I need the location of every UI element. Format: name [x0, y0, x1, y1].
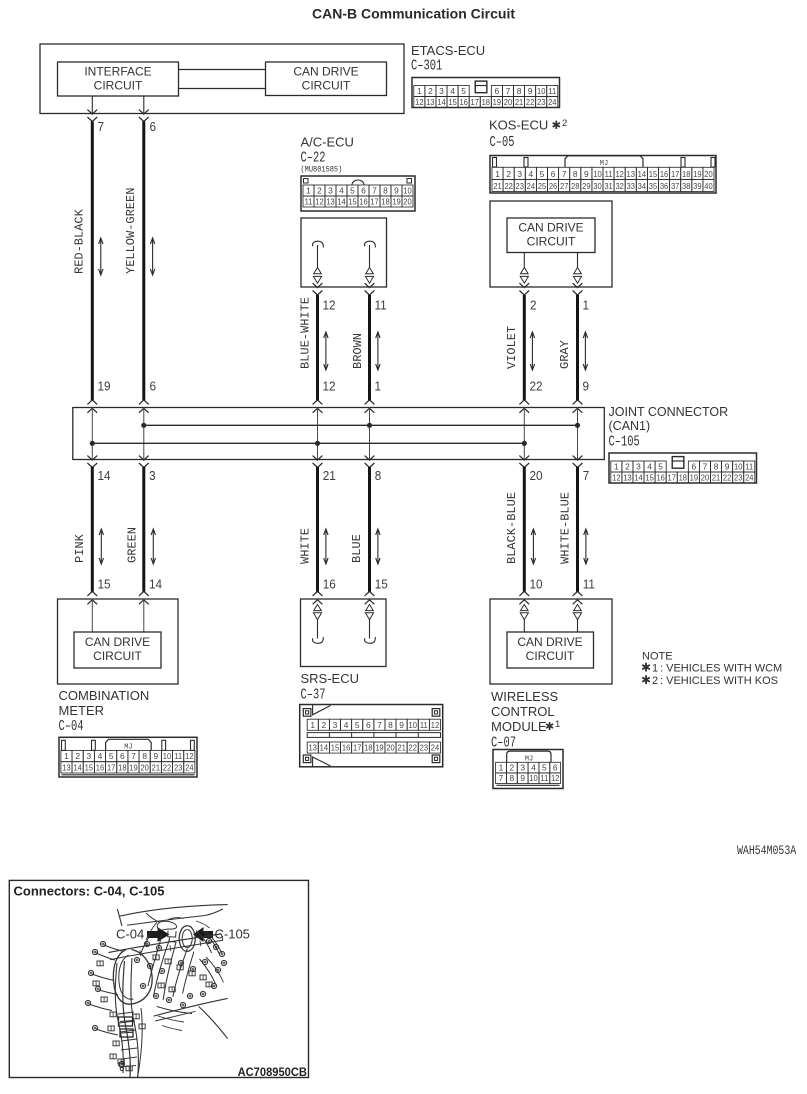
svg-text:C–301: C–301: [411, 57, 442, 74]
svg-text:5: 5: [461, 86, 466, 96]
svg-text:32: 32: [615, 182, 624, 191]
svg-text:31: 31: [604, 182, 613, 191]
svg-text:PINK: PINK: [73, 533, 87, 563]
svg-text:22: 22: [504, 182, 513, 191]
svg-text:Connectors: C-04, C-105: Connectors: C-04, C-105: [14, 884, 165, 899]
svg-text:23: 23: [516, 182, 525, 191]
svg-text:CIRCUIT: CIRCUIT: [527, 235, 576, 249]
svg-text:C–07: C–07: [491, 734, 516, 751]
svg-text:1: 1: [495, 169, 500, 179]
svg-text:19: 19: [690, 473, 699, 482]
svg-text:12: 12: [612, 473, 621, 482]
svg-text:RED-BLACK: RED-BLACK: [73, 208, 87, 274]
svg-text:5: 5: [350, 186, 355, 196]
svg-text:5: 5: [109, 751, 114, 761]
svg-text:1: 1: [375, 379, 382, 394]
svg-text:2: 2: [75, 751, 80, 761]
svg-text:3: 3: [517, 169, 522, 179]
svg-text:1: 1: [583, 298, 590, 313]
svg-text:16: 16: [359, 197, 368, 206]
svg-text:2: 2: [530, 298, 537, 313]
svg-text:20: 20: [701, 473, 710, 482]
svg-text:13: 13: [326, 197, 335, 206]
svg-text:7: 7: [98, 120, 105, 135]
svg-text:8: 8: [510, 773, 515, 783]
svg-text:11: 11: [548, 87, 556, 96]
svg-text:19: 19: [392, 197, 401, 206]
svg-text:20: 20: [140, 763, 149, 772]
svg-text:34: 34: [638, 182, 647, 191]
svg-text:7: 7: [372, 186, 377, 196]
svg-text:24: 24: [745, 473, 754, 482]
svg-text:5: 5: [658, 462, 663, 472]
svg-text:2: 2: [428, 86, 433, 96]
svg-text:ETACS-ECU: ETACS-ECU: [411, 43, 485, 58]
svg-text:4: 4: [98, 751, 103, 761]
svg-text:4: 4: [450, 86, 455, 96]
svg-text:: VEHICLES WITH WCM: : VEHICLES WITH WCM: [660, 663, 782, 675]
svg-text:8: 8: [388, 720, 393, 730]
svg-text:24: 24: [548, 98, 557, 107]
svg-text:19: 19: [493, 98, 502, 107]
svg-text:10: 10: [734, 462, 743, 471]
svg-text:40: 40: [704, 182, 713, 191]
svg-text:9: 9: [528, 86, 533, 96]
svg-text:15: 15: [348, 197, 357, 206]
svg-text:CIRCUIT: CIRCUIT: [94, 79, 143, 93]
svg-text:21: 21: [397, 743, 406, 752]
svg-text:15: 15: [331, 743, 340, 752]
svg-text:4: 4: [647, 462, 652, 472]
svg-text:16: 16: [323, 577, 336, 592]
svg-text:12: 12: [551, 774, 560, 783]
svg-text:7: 7: [506, 86, 511, 96]
svg-text:6: 6: [361, 186, 366, 196]
svg-text:9: 9: [520, 773, 525, 783]
svg-text:11: 11: [305, 197, 313, 206]
svg-text:13: 13: [309, 743, 318, 752]
svg-text:C-04: C-04: [116, 927, 144, 942]
svg-text:37: 37: [671, 182, 680, 191]
svg-text:33: 33: [627, 182, 636, 191]
svg-text:9: 9: [725, 462, 730, 472]
svg-text:KOS-ECU: KOS-ECU: [489, 118, 548, 133]
svg-text:WAH54M053A: WAH54M053A: [737, 845, 796, 858]
svg-text:CIRCUIT: CIRCUIT: [302, 79, 351, 93]
svg-text:11: 11: [745, 462, 753, 471]
svg-text:VIOLET: VIOLET: [505, 326, 519, 369]
svg-text:GRAY: GRAY: [558, 340, 572, 369]
svg-text:1: 1: [310, 720, 315, 730]
svg-text:23: 23: [734, 473, 743, 482]
svg-text:CAN DRIVE: CAN DRIVE: [517, 635, 582, 649]
svg-text:CAN DRIVE: CAN DRIVE: [293, 65, 358, 79]
svg-text:22: 22: [530, 379, 543, 394]
svg-text:1: 1: [306, 186, 311, 196]
svg-text:BLACK-BLUE: BLACK-BLUE: [505, 492, 519, 564]
svg-text:24: 24: [527, 182, 536, 191]
svg-text:3: 3: [86, 751, 91, 761]
svg-text:METER: METER: [59, 703, 105, 718]
svg-text:12: 12: [431, 720, 440, 729]
svg-text:6: 6: [150, 120, 157, 135]
svg-text:COMBINATION: COMBINATION: [59, 688, 150, 703]
svg-text:13: 13: [426, 98, 435, 107]
svg-text:BLUE-WHITE: BLUE-WHITE: [299, 297, 313, 369]
svg-text:9: 9: [583, 379, 590, 394]
svg-text:3: 3: [439, 86, 444, 96]
svg-text:18: 18: [679, 473, 688, 482]
svg-text:17: 17: [107, 763, 116, 772]
svg-text:6: 6: [553, 762, 558, 772]
svg-text:BLUE: BLUE: [350, 534, 364, 563]
svg-text:13: 13: [627, 170, 636, 179]
svg-text:14: 14: [437, 98, 446, 107]
svg-text:12: 12: [323, 298, 336, 313]
svg-text:INTERFACE: INTERFACE: [84, 65, 151, 79]
svg-text:15: 15: [448, 98, 457, 107]
svg-text:14: 14: [337, 197, 346, 206]
svg-text:7: 7: [377, 720, 382, 730]
svg-text:1: 1: [652, 663, 658, 675]
svg-text:21: 21: [493, 182, 502, 191]
svg-text:6: 6: [495, 86, 500, 96]
svg-text:18: 18: [682, 170, 691, 179]
svg-text:BROWN: BROWN: [351, 333, 365, 369]
svg-text:8: 8: [714, 462, 719, 472]
svg-text:25: 25: [538, 182, 547, 191]
svg-text:4: 4: [529, 169, 534, 179]
svg-text:18: 18: [482, 98, 491, 107]
svg-text:4: 4: [339, 186, 344, 196]
svg-text:MJ: MJ: [525, 755, 533, 763]
svg-text:13: 13: [623, 473, 632, 482]
svg-text:CAN DRIVE: CAN DRIVE: [518, 221, 583, 235]
svg-text:12: 12: [323, 379, 336, 394]
svg-text:WHITE: WHITE: [299, 528, 313, 564]
svg-text:20: 20: [386, 743, 395, 752]
svg-text:17: 17: [353, 743, 362, 752]
svg-text:15: 15: [98, 577, 111, 592]
svg-text:24: 24: [185, 763, 194, 772]
svg-text:12: 12: [315, 197, 324, 206]
svg-text:1: 1: [64, 751, 69, 761]
svg-text:15: 15: [649, 170, 658, 179]
svg-text:JOINT CONNECTOR: JOINT CONNECTOR: [609, 405, 729, 419]
svg-text:16: 16: [96, 763, 105, 772]
svg-text:12: 12: [185, 752, 194, 761]
svg-text:CIRCUIT: CIRCUIT: [526, 649, 575, 663]
svg-text:✱: ✱: [641, 673, 651, 687]
svg-text:14: 14: [638, 170, 647, 179]
svg-text:7: 7: [562, 169, 567, 179]
svg-text:10: 10: [529, 774, 538, 783]
svg-text:1: 1: [555, 719, 560, 730]
svg-text:16: 16: [342, 743, 351, 752]
svg-text:17: 17: [668, 473, 677, 482]
svg-text:9: 9: [399, 720, 404, 730]
svg-text:39: 39: [693, 182, 702, 191]
svg-text:18: 18: [381, 197, 390, 206]
svg-text:16: 16: [660, 170, 669, 179]
svg-text:CAN DRIVE: CAN DRIVE: [85, 635, 150, 649]
svg-text:10: 10: [530, 577, 543, 592]
svg-text:20: 20: [504, 98, 513, 107]
svg-text:15: 15: [645, 473, 654, 482]
svg-text:11: 11: [583, 577, 595, 592]
svg-text:23: 23: [420, 743, 429, 752]
svg-text:18: 18: [364, 743, 373, 752]
svg-text:6: 6: [551, 169, 556, 179]
svg-text:16: 16: [656, 473, 665, 482]
svg-text:10: 10: [593, 170, 602, 179]
svg-text:MJ: MJ: [124, 744, 132, 752]
svg-text:5: 5: [355, 720, 360, 730]
svg-text:19: 19: [375, 743, 384, 752]
svg-text:MJ: MJ: [600, 160, 608, 168]
svg-text:14: 14: [98, 469, 111, 484]
svg-text:10: 10: [163, 752, 172, 761]
svg-text:C–105: C–105: [609, 433, 640, 450]
svg-text:15: 15: [375, 577, 388, 592]
svg-text:21: 21: [152, 763, 161, 772]
svg-text:9: 9: [394, 186, 399, 196]
svg-text:8: 8: [517, 86, 522, 96]
svg-text:3: 3: [520, 762, 525, 772]
svg-text:28: 28: [571, 182, 580, 191]
svg-text:21: 21: [323, 469, 336, 484]
svg-text:23: 23: [537, 98, 546, 107]
svg-text:21: 21: [712, 473, 721, 482]
svg-text:CIRCUIT: CIRCUIT: [93, 649, 142, 663]
svg-text:3: 3: [149, 469, 156, 484]
svg-text:17: 17: [671, 170, 680, 179]
svg-text:22: 22: [526, 98, 535, 107]
svg-text:14: 14: [634, 473, 643, 482]
svg-text:C–05: C–05: [490, 133, 515, 150]
svg-text:2: 2: [510, 762, 515, 772]
svg-text:9: 9: [584, 169, 589, 179]
svg-text:22: 22: [723, 473, 732, 482]
svg-text:27: 27: [560, 182, 569, 191]
svg-text:2: 2: [317, 186, 322, 196]
svg-text:14: 14: [73, 763, 82, 772]
svg-text:1: 1: [417, 86, 422, 96]
svg-text:35: 35: [649, 182, 658, 191]
svg-text:MODULE: MODULE: [491, 719, 547, 734]
svg-text:4: 4: [531, 762, 536, 772]
svg-text:21: 21: [515, 98, 524, 107]
svg-text:20: 20: [704, 170, 713, 179]
svg-text:38: 38: [682, 182, 691, 191]
svg-text:24: 24: [431, 743, 440, 752]
svg-text:17: 17: [471, 98, 480, 107]
svg-text:11: 11: [375, 298, 387, 313]
svg-text:4: 4: [344, 720, 349, 730]
svg-text:7: 7: [499, 773, 504, 783]
svg-text:29: 29: [582, 182, 591, 191]
svg-text:12: 12: [415, 98, 424, 107]
svg-text:2: 2: [652, 675, 658, 687]
svg-text:36: 36: [660, 182, 669, 191]
svg-text:13: 13: [62, 763, 71, 772]
svg-text:11: 11: [605, 170, 613, 179]
svg-text:2: 2: [322, 720, 327, 730]
svg-text:CONTROL: CONTROL: [491, 704, 555, 719]
svg-text:8: 8: [383, 186, 388, 196]
svg-text:8: 8: [375, 469, 382, 484]
svg-text:11: 11: [174, 752, 182, 761]
svg-text:: VEHICLES WITH KOS: : VEHICLES WITH KOS: [660, 675, 778, 687]
svg-text:12: 12: [615, 170, 624, 179]
svg-text:6: 6: [366, 720, 371, 730]
svg-text:26: 26: [549, 182, 558, 191]
svg-text:C–37: C–37: [301, 686, 326, 703]
svg-text:5: 5: [540, 169, 545, 179]
svg-text:WIRELESS: WIRELESS: [491, 689, 559, 704]
svg-text:7: 7: [131, 751, 136, 761]
svg-text:14: 14: [320, 743, 329, 752]
svg-text:17: 17: [370, 197, 379, 206]
svg-text:SRS-ECU: SRS-ECU: [301, 671, 360, 686]
svg-text:20: 20: [403, 197, 412, 206]
svg-text:22: 22: [409, 743, 418, 752]
svg-text:18: 18: [118, 763, 127, 772]
svg-text:8: 8: [573, 169, 578, 179]
svg-text:20: 20: [530, 469, 543, 484]
svg-text:7: 7: [703, 462, 708, 472]
svg-text:19: 19: [129, 763, 138, 772]
svg-text:GREEN: GREEN: [126, 527, 140, 563]
svg-text:15: 15: [85, 763, 94, 772]
svg-text:C–22: C–22: [301, 149, 326, 166]
svg-text:5: 5: [542, 762, 547, 772]
svg-text:(CAN1): (CAN1): [609, 419, 651, 433]
svg-text:9: 9: [153, 751, 158, 761]
svg-text:(MU801585): (MU801585): [301, 166, 343, 175]
svg-text:2: 2: [562, 118, 567, 129]
svg-text:CAN-B Communication Circuit: CAN-B Communication Circuit: [312, 5, 515, 21]
svg-text:22: 22: [163, 763, 172, 772]
svg-text:A/C-ECU: A/C-ECU: [301, 135, 354, 150]
svg-text:23: 23: [174, 763, 183, 772]
svg-text:6: 6: [150, 379, 157, 394]
svg-text:2: 2: [506, 169, 511, 179]
svg-text:8: 8: [142, 751, 147, 761]
svg-text:19: 19: [98, 379, 111, 394]
svg-text:19: 19: [693, 170, 702, 179]
svg-text:1: 1: [614, 462, 619, 472]
svg-text:14: 14: [149, 577, 162, 592]
svg-text:7: 7: [583, 469, 590, 484]
svg-text:✱: ✱: [552, 120, 562, 132]
svg-text:WHITE-BLUE: WHITE-BLUE: [559, 492, 573, 564]
svg-text:AC708950CB: AC708950CB: [238, 1066, 307, 1078]
svg-text:10: 10: [409, 720, 418, 729]
svg-text:YELLOW-GREEN: YELLOW-GREEN: [124, 188, 138, 274]
svg-text:10: 10: [403, 186, 412, 195]
svg-text:6: 6: [692, 462, 697, 472]
svg-text:11: 11: [420, 720, 428, 729]
svg-text:16: 16: [459, 98, 468, 107]
svg-text:3: 3: [333, 720, 338, 730]
svg-text:3: 3: [328, 186, 333, 196]
svg-text:C–04: C–04: [59, 717, 84, 734]
svg-text:30: 30: [593, 182, 602, 191]
svg-text:2: 2: [625, 462, 630, 472]
svg-text:6: 6: [120, 751, 125, 761]
svg-text:10: 10: [537, 87, 546, 96]
svg-text:11: 11: [540, 774, 548, 783]
svg-text:3: 3: [636, 462, 641, 472]
svg-text:1: 1: [499, 762, 504, 772]
svg-text:✱: ✱: [545, 721, 554, 733]
